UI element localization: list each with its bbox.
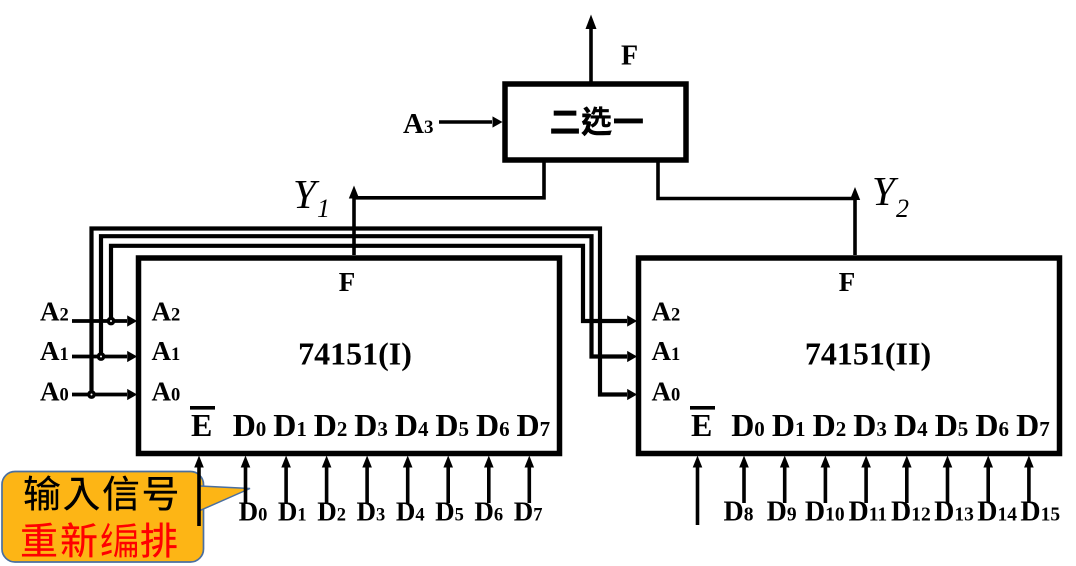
callout text line2 重新编排 [22,522,177,557]
svg-text:F: F [339,267,356,297]
arrow E-bar input 74151(I) [194,456,204,468]
arrow D1 input 74151(I) [281,456,291,468]
wire F output [589,27,593,84]
wire D4 input 74151(I) [406,462,410,503]
arrow D4 input 74151(II) [902,456,912,468]
wire D2 input 74151(I) [325,462,329,503]
arrow Y2 [850,187,860,200]
wire D6 input 74151(I) [487,462,491,503]
junction dot A2 [108,318,113,323]
arrow A2 into 74151(I) [127,315,137,326]
arrow A2 into 74151(II) [627,315,637,326]
arrow D6 input 74151(II) [983,456,993,468]
svg-text:F: F [621,41,638,72]
wire A1 bus over to 74151(II) [101,236,627,358]
callout tail [200,486,250,511]
wire A2 bus over to 74151(II) [111,246,627,323]
svg-text:74151(II): 74151(II) [805,336,931,372]
wire A3 input [439,120,492,124]
junction dot A1 [98,354,103,359]
arrow D4 input 74151(I) [403,456,413,468]
chip 74151(I) box [139,258,560,454]
svg-text:E: E [691,407,712,443]
wire A2 external input [72,319,127,323]
arrow F output [586,15,597,30]
arrow E-bar input 74151(II) [693,456,703,468]
arrow D5 input 74151(II) [943,456,953,468]
wire D5 input 74151(II) [946,462,950,503]
wire D5 input 74151(I) [446,462,450,503]
chip 74151(II) box [639,258,1060,454]
arrow D7 input 74151(II) [1024,456,1034,468]
mux box 二选一 U3 [505,84,686,160]
arrow D5 input 74151(I) [443,456,453,468]
wire A0 external input [72,393,127,397]
wire D6 input 74151(II) [986,462,990,503]
wire E-bar input 74151(II) [696,462,700,525]
wire D2 input 74151(II) [824,462,828,503]
arrow Y1 [349,186,359,199]
wire A0 bus over to 74151(II) [92,229,628,397]
wire D1 input 74151(I) [284,462,288,503]
arrow D2 input 74151(I) [322,456,332,468]
arrow D0 input 74151(II) [739,456,749,468]
arrow D6 input 74151(I) [484,456,494,468]
arrow A3 input [493,116,503,127]
wire mux to Y1 [354,158,544,198]
arrow D1 input 74151(II) [780,456,790,468]
junction dot A0 [89,392,94,397]
wire D7 input 74151(I) [527,462,531,503]
arrow D0 input 74151(I) [241,456,251,468]
arrow A1 into 74151(II) [627,351,637,362]
arrow D7 input 74151(I) [525,456,535,468]
svg-text:F: F [839,267,856,297]
wire D3 input 74151(I) [365,462,369,503]
arrow D2 input 74151(II) [821,456,831,468]
label 二选一 [551,106,643,136]
svg-text:E: E [191,407,212,443]
svg-text:74151(I): 74151(I) [298,336,412,372]
arrow A0 into 74151(II) [627,389,637,400]
arrow A0 into 74151(I) [127,389,137,400]
callout text line1 输入信号 [25,475,178,510]
wire D3 input 74151(II) [864,462,868,503]
wire Y1 from 74151(I) F [352,199,356,256]
arrow D3 input 74151(I) [362,456,372,468]
arrow A1 into 74151(I) [127,351,137,362]
wire Y2 from 74151(II) F [853,199,857,255]
arrow D3 input 74151(II) [861,456,871,468]
wire mux to Y2 [658,158,855,199]
wire D0 input 74151(I) [244,462,248,503]
wire D0 input 74151(II) [742,462,746,503]
wire E-bar input 74151(I) [197,462,201,526]
wire D4 input 74151(II) [905,462,909,503]
svg-text:2: 2 [896,194,909,223]
callout bubble [2,472,204,563]
wire D1 input 74151(II) [783,462,787,503]
wire D7 input 74151(II) [1027,462,1031,503]
svg-text:1: 1 [317,194,330,223]
wire A1 external input [72,355,127,359]
